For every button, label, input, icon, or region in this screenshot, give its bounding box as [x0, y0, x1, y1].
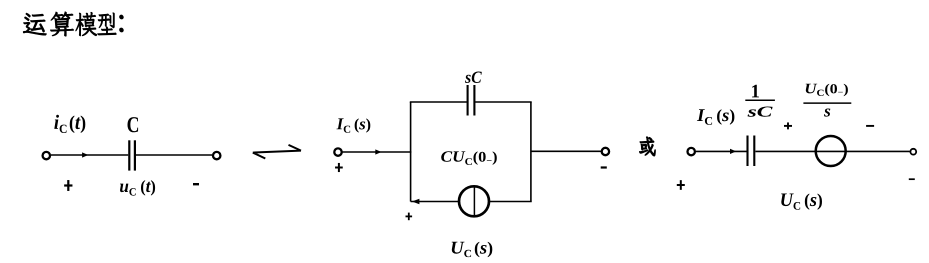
- or-word 或: [640, 137, 656, 156]
- current source internal bar: [473, 186, 475, 216]
- polarity plus right-circuit bottom-left: [677, 180, 685, 190]
- wire right-circuit terminal to capacitor: [696, 150, 747, 152]
- current source circle: [459, 186, 489, 216]
- label CU_C(0-): [441, 151, 497, 165]
- current arrow I_C(s) right-circuit: [730, 149, 736, 154]
- box left vertical wire: [410, 102, 412, 202]
- box top wire with capacitor sC: [410, 101, 532, 103]
- terminal left-circuit negative: [213, 152, 220, 159]
- current arrow i_C(t): [82, 152, 88, 157]
- terminal left-circuit positive: [43, 152, 50, 159]
- label u_C(t): [120, 180, 155, 195]
- label U_C(s) below middle circuit: [452, 242, 493, 257]
- label fraction 1/sC denominator: [748, 106, 773, 116]
- terminal middle-circuit positive: [334, 148, 341, 155]
- wire left-circuit capacitor to right terminal: [136, 154, 212, 156]
- label I_C(s) right-circuit: [697, 109, 735, 125]
- capacitor sC plates: [468, 85, 475, 116]
- polarity minus right-circuit bottom-right: [909, 178, 915, 180]
- capacitor C plates: [129, 140, 135, 170]
- equivalence harpoon symbol: [253, 145, 301, 159]
- label C (capacitance): [127, 117, 138, 132]
- capacitor 1/sC plates: [748, 136, 755, 167]
- polarity plus left-circuit: [64, 180, 72, 191]
- wire middle-circuit box to right terminal: [531, 150, 601, 152]
- title char 运: [23, 13, 46, 35]
- current arrow I_C(s): [375, 149, 381, 154]
- label U_C(s) right-circuit: [781, 193, 822, 209]
- wire left-circuit terminal to capacitor: [51, 154, 128, 156]
- polarity plus at source right-circuit: [784, 122, 792, 129]
- title char 算: [50, 12, 73, 36]
- polarity minus left-circuit: [193, 183, 199, 185]
- fraction U_C(0-)/s bar: [803, 102, 851, 104]
- polarity plus at source arrow: [406, 213, 413, 221]
- box bottom wire with source: [411, 201, 532, 203]
- voltage source circle U_C(0-)/s: [816, 136, 846, 166]
- fraction 1/sC bar: [745, 99, 775, 101]
- terminal right-circuit positive: [688, 148, 695, 155]
- label I_C(s): [336, 118, 370, 132]
- title colon: [120, 15, 124, 32]
- box right vertical wire: [530, 102, 532, 202]
- wire middle-circuit terminal to box: [342, 151, 411, 153]
- label sC: [465, 71, 482, 83]
- label i_C(t): [54, 115, 85, 133]
- polarity plus middle-circuit input: [335, 163, 343, 172]
- label fraction 1/sC numerator: [752, 85, 759, 98]
- label fraction U_C(0-)/s numerator: [806, 84, 848, 96]
- terminal middle-circuit negative: [602, 148, 609, 155]
- terminal right-circuit negative: [910, 149, 916, 155]
- polarity minus middle-circuit output: [601, 166, 607, 168]
- title char 模: [76, 12, 97, 36]
- label fraction U_C(0-)/s denominator: [824, 109, 830, 117]
- source current arrow (points left): [412, 199, 420, 205]
- polarity minus at source right-circuit: [866, 125, 874, 127]
- title char 型: [98, 13, 117, 35]
- wire right-circuit capacitor through source to right terminal: [756, 150, 910, 152]
